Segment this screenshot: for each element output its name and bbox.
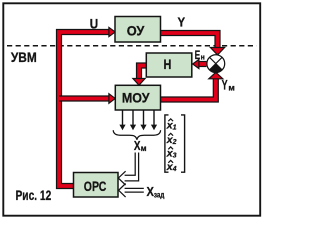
wire Yм: МОУ output up to comparator xyxy=(161,79,216,100)
dashed boundary line of УВМ xyxy=(7,45,257,47)
arrow Ен into Н xyxy=(193,59,199,68)
svg-text:УВМ: УВМ xyxy=(11,49,37,65)
svg-text:ОУ: ОУ xyxy=(127,23,145,39)
svg-text:зад: зад xyxy=(154,191,165,200)
wire: branch to МОУ xyxy=(59,95,111,101)
svg-text:м: м xyxy=(228,83,234,93)
vector element x̂1 xyxy=(166,119,177,132)
svg-text:Рис. 12: Рис. 12 xyxy=(16,187,52,203)
svg-text:Е: Е xyxy=(195,50,201,62)
arrow Yм up into comparator xyxy=(209,72,223,79)
vector element x̂3 xyxy=(166,147,177,160)
wire Y: ОУ to comparator xyxy=(161,33,218,49)
svg-text:Н: Н xyxy=(164,56,172,72)
block МОУ xyxy=(115,85,160,110)
block Н xyxy=(146,53,192,77)
arrow into МОУ left xyxy=(109,94,115,104)
wire: left trunk with U branch and ОРС branch xyxy=(59,32,111,186)
vector wire Xм into ОРС (hollow double-line arrow) xyxy=(118,153,138,186)
state vector bracket xyxy=(165,115,185,172)
comparator (summing junction) xyxy=(207,55,225,73)
arrow into МОУ top xyxy=(133,79,145,86)
svg-text:U: U xyxy=(90,16,98,32)
block ОРС xyxy=(74,173,119,198)
thin output arrows below МОУ xyxy=(123,111,155,126)
svg-text:н: н xyxy=(201,52,205,61)
svg-text:ОРС: ОРС xyxy=(84,178,107,194)
svg-text:Y: Y xyxy=(178,15,186,30)
svg-text:МОУ: МОУ xyxy=(122,89,150,105)
gathering brace under МОУ arrows xyxy=(113,130,160,140)
wire Ен: comparator to Н xyxy=(198,61,207,67)
svg-text:Y: Y xyxy=(222,78,228,93)
arrow U into ОУ xyxy=(109,27,115,36)
wire: Н output down to МОУ xyxy=(139,66,147,80)
svg-text:м: м xyxy=(141,144,147,153)
vector wire Xзад into ОРС (hollow double-line arrow) xyxy=(119,184,144,198)
vector element x̂2 xyxy=(166,133,177,146)
vector element x̂4 xyxy=(166,160,177,173)
block ОУ xyxy=(115,17,161,43)
arrow Y down into comparator xyxy=(210,48,224,56)
